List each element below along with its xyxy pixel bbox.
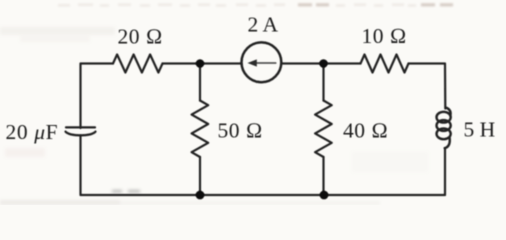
capacitor 20µF top plate bbox=[66, 126, 95, 128]
node C (bottom, 50Ω junction) bbox=[196, 191, 205, 200]
node A (top, 50Ω junction) bbox=[196, 59, 205, 68]
wire capacitor to bottom-left corner bbox=[81, 135, 201, 195]
inductor 5H loop 1 bbox=[437, 112, 451, 123]
svg-text:40 Ω: 40 Ω bbox=[343, 119, 388, 143]
wire node C to node D (bottom) bbox=[200, 194, 324, 196]
resistor 50Ω vertical zigzag bbox=[192, 101, 209, 158]
current source 2A circle bbox=[242, 42, 282, 82]
node B (top, 40Ω junction) bbox=[319, 59, 328, 68]
svg-text:10 Ω: 10 Ω bbox=[362, 24, 407, 48]
wire resistor 40Ω to node D bbox=[322, 157, 324, 195]
svg-text:20 μF: 20 μF bbox=[6, 120, 59, 144]
resistor 10Ω zigzag bbox=[361, 55, 409, 73]
wire resistor 50Ω to node C bbox=[199, 157, 201, 195]
wire node D to bottom-right corner up to inductor bbox=[324, 148, 446, 195]
current source 2A arrow bbox=[252, 62, 276, 64]
svg-text:5 H: 5 H bbox=[464, 118, 496, 142]
wire node A to current source bbox=[200, 62, 242, 64]
bleed-through speck row (top edge) bbox=[58, 3, 416, 6]
capacitor 20µF curved plate bbox=[66, 132, 96, 136]
wire node A down to resistor 50Ω bbox=[199, 64, 201, 101]
node D (bottom, 40Ω junction) bbox=[320, 191, 329, 200]
resistor 20Ω zigzag bbox=[113, 55, 163, 73]
wire resistor 20Ω to node A bbox=[163, 62, 201, 64]
faint page bleed smudges bbox=[0, 27, 428, 205]
wire current source to node B bbox=[281, 62, 323, 64]
inductor 5H loop 3 bbox=[437, 128, 451, 139]
bleed-through darker clusters (top edge) bbox=[298, 3, 453, 6]
wire node B to resistor 10Ω bbox=[324, 62, 361, 64]
resistor 40Ω vertical zigzag bbox=[315, 101, 332, 158]
svg-text:20 Ω: 20 Ω bbox=[118, 25, 163, 49]
wire node B down to resistor 40Ω bbox=[322, 64, 324, 101]
inductor 5H loop 2 bbox=[437, 120, 451, 131]
wire resistor 10Ω to top-right corner and down to inductor bbox=[409, 64, 446, 109]
svg-text:50 Ω: 50 Ω bbox=[218, 119, 263, 143]
svg-text:2 A: 2 A bbox=[248, 13, 279, 37]
inductor 5H coil hooks bbox=[446, 108, 451, 116]
wire left vertical (top corner to capacitor) bbox=[81, 64, 114, 129]
